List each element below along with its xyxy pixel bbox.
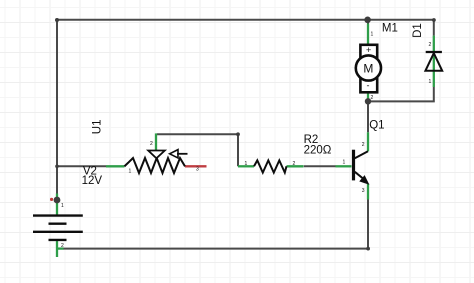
svg-text:M1: M1 bbox=[382, 23, 398, 35]
svg-text:1: 1 bbox=[61, 203, 64, 209]
svg-text:2: 2 bbox=[150, 141, 153, 147]
svg-text:12V: 12V bbox=[82, 175, 103, 187]
svg-text:D1: D1 bbox=[412, 23, 424, 38]
svg-text:2: 2 bbox=[362, 142, 365, 148]
svg-text:3: 3 bbox=[362, 188, 365, 194]
svg-text:-: - bbox=[367, 81, 370, 91]
svg-text:2: 2 bbox=[429, 42, 432, 48]
svg-text:1: 1 bbox=[245, 161, 248, 167]
svg-text:1: 1 bbox=[429, 79, 432, 85]
svg-text:U1: U1 bbox=[92, 119, 104, 134]
svg-text:1: 1 bbox=[129, 168, 132, 174]
svg-text:220Ω: 220Ω bbox=[304, 144, 332, 156]
svg-text:1: 1 bbox=[343, 159, 346, 165]
svg-text:Q1: Q1 bbox=[369, 120, 384, 132]
svg-text:2: 2 bbox=[293, 161, 296, 167]
svg-text:+: + bbox=[366, 45, 371, 55]
svg-text:M: M bbox=[363, 61, 373, 75]
svg-text:2: 2 bbox=[61, 243, 64, 249]
svg-text:3: 3 bbox=[196, 167, 199, 173]
svg-text:2: 2 bbox=[371, 95, 374, 101]
svg-text:1: 1 bbox=[371, 32, 374, 38]
